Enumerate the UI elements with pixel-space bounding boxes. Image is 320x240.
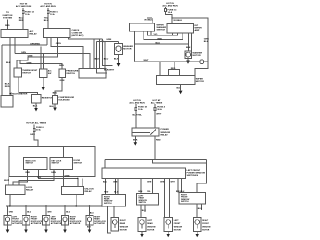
label BLK/RED — [5, 84, 10, 89]
svg-text:GRN: GRN — [65, 175, 70, 177]
node TO IGNITION SYSTEM — [3, 12, 13, 19]
wire box2 pin1 — [46, 38, 48, 46]
window motor M2 — [138, 218, 156, 232]
ground M3 — [167, 232, 170, 238]
wire trunk left drop — [104, 159, 106, 168]
svg-text:HOT AT ALL TIMES: HOT AT ALL TIMES — [26, 122, 46, 125]
svg-text:WASHER: WASHER — [193, 52, 203, 55]
window switch S1 — [102, 194, 126, 206]
wire relay pin to compressor branch — [9, 38, 11, 96]
svg-text:30 A: 30 A — [157, 108, 162, 111]
label UNLOCK RELAY — [85, 189, 95, 194]
wire H6 box2 right pins — [69, 38, 103, 40]
svg-text:WINDOW: WINDOW — [174, 226, 183, 228]
svg-text:WASHER: WASHER — [123, 45, 133, 48]
svg-text:GRN: GRN — [60, 80, 65, 82]
wire box9b pin pair — [113, 178, 118, 194]
washer motor box8 — [185, 51, 192, 58]
svg-text:YEL: YEL — [37, 177, 42, 179]
wire A pin1 to lock relay — [13, 170, 27, 186]
svg-text:REAR: REAR — [147, 222, 153, 225]
svg-text:GRN: GRN — [28, 56, 33, 58]
wire S1 left leg — [107, 206, 111, 233]
svg-text:SWITCH: SWITCH — [22, 72, 31, 74]
wiper motor box9 — [157, 76, 195, 85]
wire fuse to wiper switch — [166, 11, 173, 24]
wire box9b to S2 — [141, 178, 152, 193]
svg-text:SOLENOID: SOLENOID — [58, 99, 70, 101]
svg-text:WASHER: WASHER — [157, 26, 167, 29]
svg-text:LEFT: LEFT — [147, 220, 153, 222]
window motor M3 — [164, 218, 182, 232]
actuator U1 — [4, 206, 25, 225]
svg-text:MOTOR: MOTOR — [174, 230, 182, 232]
wire left branch — [97, 41, 108, 73]
wire fuse to lock switch — [34, 131, 38, 153]
svg-text:VIO: VIO — [154, 34, 158, 36]
wire trunk lower parallel branch — [152, 159, 206, 163]
svg-text:WINDOW: WINDOW — [147, 226, 156, 228]
wire B pin2 to unlock relay — [63, 170, 65, 187]
svg-text:ACTUATOR: ACTUATOR — [94, 222, 105, 225]
svg-text:SYSTEM: SYSTEM — [3, 17, 12, 19]
wire box6a pin to washer motor — [118, 41, 120, 43]
svg-text:HOT AT: HOT AT — [153, 99, 162, 102]
ground U3 — [44, 225, 48, 233]
label WASHER MOTOR — [193, 52, 203, 58]
wire box9b to S3 — [176, 178, 185, 193]
svg-text:SWITCH: SWITCH — [157, 30, 166, 32]
svg-text:SWITCH: SWITCH — [104, 203, 112, 205]
ground under box9 — [177, 85, 183, 95]
svg-text:GRN: GRN — [106, 39, 111, 41]
svg-text:BLU: BLU — [198, 208, 203, 210]
svg-text:BLK/WHT: BLK/WHT — [104, 69, 115, 71]
wire boxB feed — [63, 147, 65, 158]
svg-text:GRN: GRN — [138, 191, 143, 193]
label BLU — [19, 18, 24, 23]
ground U5 — [87, 225, 92, 233]
svg-text:GRN: GRN — [113, 181, 118, 183]
unlock relay boxR — [62, 187, 84, 195]
wire S2 to M2 — [141, 205, 146, 218]
svg-text:MOTOR: MOTOR — [147, 230, 155, 232]
svg-text:ACC AND RUN: ACC AND RUN — [162, 4, 178, 7]
ground U4 — [63, 225, 67, 233]
power window relay box — [132, 128, 159, 136]
wire box2 pin2 — [51, 38, 83, 69]
svg-text:BLU: BLU — [142, 210, 147, 212]
svg-text:GRN: GRN — [47, 212, 52, 214]
label WIPER MOTOR — [196, 78, 205, 83]
label TO TACHOMETER with arrow — [9, 92, 28, 95]
svg-text:BLK: BLK — [204, 41, 209, 43]
svg-text:FRONT: FRONT — [202, 223, 209, 225]
svg-text:SWITCH: SWITCH — [139, 202, 147, 204]
fuse F12 10A — [22, 10, 34, 16]
svg-text:MOTOR: MOTOR — [123, 49, 132, 51]
label PRESSURE SWITCH — [66, 71, 79, 76]
svg-text:ACC AND RUN: ACC AND RUN — [16, 5, 32, 8]
svg-text:SWITCH: SWITCH — [66, 73, 75, 75]
actuator U4 — [61, 206, 82, 225]
wire box2 pin4 GRN to thermo switch — [17, 38, 57, 69]
window motor M1 — [111, 218, 128, 232]
svg-text:RIGHT: RIGHT — [120, 220, 127, 222]
svg-text:10 A: 10 A — [168, 11, 173, 14]
label A/C SW — [48, 70, 52, 76]
label A/C RELAY — [30, 30, 38, 36]
svg-text:ACTUATOR: ACTUATOR — [12, 222, 23, 225]
a/c switch box2 — [44, 29, 71, 38]
ground U2 — [24, 225, 28, 233]
svg-text:SWITCH: SWITCH — [181, 201, 189, 203]
svg-text:10 A: 10 A — [50, 13, 55, 16]
svg-text:BLU: BLU — [53, 92, 58, 94]
radio suppressor box5a — [1, 96, 13, 108]
wire ignition to relay — [7, 20, 9, 30]
svg-text:ALL TIMES: ALL TIMES — [151, 102, 163, 105]
node HOT AT ALL TIMES — [151, 99, 163, 105]
fuse F4 30A — [154, 104, 165, 111]
wire trunk P — [105, 158, 206, 160]
washer motor box7 — [115, 44, 123, 55]
svg-text:TACHOMETER: TACHOMETER — [12, 93, 28, 96]
relay box3b — [40, 69, 48, 78]
svg-text:WHT: WHT — [4, 180, 10, 182]
wire feed1 — [22, 8, 24, 30]
junction dots on bus — [9, 205, 103, 206]
label LEFT FRONT POWER WINDOW SWITCHES — [187, 170, 206, 177]
svg-text:SWITCH: SWITCH — [74, 162, 83, 164]
svg-text:RELAY: RELAY — [30, 33, 38, 36]
svg-text:A/C: A/C — [30, 30, 34, 33]
svg-text:RIGHT: RIGHT — [202, 220, 209, 222]
wire unlock relay to bus — [75, 195, 77, 207]
wire long pair to M3 — [160, 178, 176, 217]
svg-text:RED: RED — [158, 38, 163, 40]
svg-text:ACTUATOR: ACTUATOR — [51, 222, 62, 225]
svg-text:WHT: WHT — [156, 113, 162, 115]
wire top right jumper — [172, 18, 208, 62]
wire GRN arrow to motor — [97, 39, 119, 42]
svg-text:10 A: 10 A — [138, 108, 143, 111]
wire arrow into switch — [36, 154, 39, 158]
svg-text:RED: RED — [26, 172, 31, 174]
window switch S2 — [137, 194, 159, 206]
label WASHER MOTOR — [123, 45, 133, 51]
svg-text:RED: RED — [156, 140, 161, 142]
fuse F6 30A — [33, 124, 44, 131]
pressure switch box3c — [59, 69, 66, 78]
svg-text:FRONT: FRONT — [174, 223, 181, 225]
window motor M4 — [194, 218, 211, 232]
svg-text:AMP: AMP — [195, 29, 200, 32]
wire nested H10 — [135, 31, 189, 44]
wire nested H8 — [147, 31, 177, 35]
svg-text:RESISTOR: RESISTOR — [42, 98, 54, 100]
svg-text:GRN: GRN — [30, 134, 35, 136]
ground under box5b — [33, 103, 38, 112]
svg-text:THERMOSTAT: THERMOSTAT — [22, 69, 38, 72]
wire left drop to box5a — [1, 45, 3, 96]
svg-text:A/C: A/C — [48, 70, 52, 73]
wire drop to park sw — [171, 62, 176, 70]
svg-text:RED: RED — [5, 25, 10, 27]
ground under relay — [133, 136, 138, 146]
wire trunk right path to S3 — [197, 159, 207, 192]
svg-text:RED: RED — [19, 20, 24, 22]
wire trunk drop — [134, 44, 136, 62]
junction dot — [77, 178, 78, 179]
svg-text:GRN: GRN — [160, 181, 165, 183]
svg-text:GRN: GRN — [56, 43, 61, 45]
svg-text:BLU: BLU — [104, 59, 109, 61]
label POWER WINDOW RELAY — [161, 129, 172, 136]
wire right side path — [195, 62, 208, 76]
svg-text:MOTOR: MOTOR — [193, 55, 202, 57]
actuator U5 — [86, 206, 107, 225]
wire box3b bottom arrow — [42, 78, 45, 91]
ground under box8 — [186, 58, 190, 64]
svg-text:GRN/RED: GRN/RED — [30, 43, 41, 45]
wire RED relay to trunk — [155, 136, 161, 159]
svg-text:VIO/BLK: VIO/BLK — [173, 20, 182, 22]
wire box9b pin1 — [103, 178, 108, 194]
label WIPER WASHER SWITCH — [195, 25, 203, 32]
ground U1 — [6, 225, 10, 233]
node HOT IN ACC AND RUN (left feed) — [16, 4, 32, 9]
svg-text:SWITCHES: SWITCHES — [187, 175, 199, 177]
wire S3 to M4 — [197, 204, 202, 218]
wire washer motor2 feeds — [186, 33, 192, 51]
svg-text:GRN: GRN — [147, 181, 152, 183]
wire H1 — [2, 44, 47, 46]
wire box4 drop right — [104, 41, 106, 68]
wire unlock relay second feed — [82, 178, 84, 186]
label LOCK RELAY — [26, 187, 34, 192]
lock relay boxL — [6, 185, 26, 195]
svg-text:BLU: BLU — [27, 212, 32, 214]
ground under box7 — [114, 55, 121, 67]
wire S1 to M1 top — [113, 206, 115, 217]
wire feed2 — [47, 8, 49, 29]
fuse F5 10A — [47, 10, 58, 16]
op-amp U0 a/c relay box — [1, 30, 28, 38]
wiper switch box6c — [167, 24, 194, 33]
svg-text:BLU: BLU — [156, 43, 161, 45]
svg-text:ACC AND RUN: ACC AND RUN — [40, 5, 56, 8]
ground M4 — [196, 232, 199, 238]
node HOT IN ACC AND RUN — [129, 100, 145, 105]
svg-text:GRN: GRN — [21, 52, 26, 54]
svg-text:BLU: BLU — [103, 181, 108, 183]
svg-text:GRN: GRN — [59, 65, 64, 67]
svg-text:(AUTO A/C): (AUTO A/C) — [72, 34, 84, 37]
svg-text:BLU: BLU — [114, 192, 119, 194]
svg-text:BLK: BLK — [33, 105, 38, 107]
diode box5b — [32, 95, 42, 104]
wire WHT left feed — [4, 177, 10, 186]
wire left drop — [102, 39, 112, 66]
wire nested H9 — [144, 31, 183, 39]
svg-text:ACTUATOR: ACTUATOR — [70, 222, 81, 225]
wire box2 pin3 main run — [15, 53, 90, 68]
svg-text:GRN: GRN — [51, 172, 56, 174]
wire fuse18 to relay — [135, 110, 137, 128]
svg-text:MOTOR: MOTOR — [202, 230, 210, 232]
svg-text:RELAY: RELAY — [85, 190, 93, 193]
svg-text:ACC AND RUN: ACC AND RUN — [129, 102, 145, 105]
label GRN BLK — [204, 39, 209, 44]
svg-text:BLU: BLU — [44, 20, 49, 22]
svg-text:WINDOW: WINDOW — [120, 226, 129, 228]
svg-text:BLK: BLK — [95, 59, 100, 61]
wiper switch section box6a — [130, 23, 155, 31]
dual pressure switch box4 — [79, 69, 106, 79]
label THERMO SWITCH — [22, 69, 38, 75]
svg-text:BLU: BLU — [90, 212, 95, 214]
svg-text:RED: RED — [104, 192, 109, 194]
wire A pin2 to unlock relay — [38, 170, 78, 187]
ground under box5c — [50, 104, 57, 111]
actuator U2 — [22, 206, 43, 225]
ground M2 — [140, 232, 143, 238]
wire relay pin2 down — [14, 38, 16, 54]
wire drop to wiper motor — [159, 62, 161, 76]
wire B pin1 crossover — [19, 170, 54, 186]
svg-text:WHT: WHT — [144, 60, 150, 62]
svg-text:LEFT: LEFT — [174, 220, 180, 222]
svg-text:BLK: BLK — [6, 62, 11, 64]
label COMPRESSOR SOLENOID — [58, 97, 74, 102]
svg-text:MOTOR: MOTOR — [120, 230, 128, 232]
compressor solenoid box5c — [53, 96, 58, 105]
wire box3c bottom — [55, 78, 62, 96]
wire box3b feeds — [40, 47, 42, 70]
wire H_c to pressure switch — [20, 60, 62, 69]
lock switch boxA — [24, 158, 48, 170]
svg-text:BLK: BLK — [186, 47, 191, 49]
door lock assembly box10 — [9, 147, 95, 177]
svg-text:BLU/YEL: BLU/YEL — [133, 114, 143, 116]
svg-text:MOTOR: MOTOR — [196, 81, 205, 83]
wire box6b feed VIO — [147, 18, 152, 23]
master switch box9b — [102, 168, 186, 178]
wire lock relay to bus — [9, 195, 11, 207]
wire thermo bottom — [19, 78, 38, 95]
label DOOR KEY SWITCH — [74, 160, 83, 165]
label CHECK CONN SWITCH — [72, 30, 84, 37]
washer switch box6b — [157, 24, 167, 31]
actuator U3 — [42, 206, 63, 225]
svg-text:10 A: 10 A — [25, 13, 30, 16]
key switch boxB — [50, 158, 73, 170]
svg-text:BLU: BLU — [66, 212, 71, 214]
thermostat switch box3a — [14, 68, 22, 77]
label U feeds — [9, 212, 71, 214]
svg-text:REAR: REAR — [120, 222, 126, 225]
svg-text:FUSE 4: FUSE 4 — [157, 105, 165, 108]
wire fuse4 to relay — [154, 110, 156, 128]
svg-text:GRN: GRN — [27, 62, 32, 64]
svg-text:RELAY: RELAY — [26, 189, 34, 192]
svg-text:RED: RED — [5, 86, 10, 88]
connector circle on trunk — [200, 60, 204, 64]
wire H6 drop — [93, 39, 95, 69]
svg-text:SWITCH: SWITCH — [26, 163, 34, 165]
svg-text:RELAY: RELAY — [161, 133, 169, 136]
label YEL — [44, 18, 49, 23]
svg-text:ACTUATOR: ACTUATOR — [31, 222, 42, 225]
wire trunk W — [135, 61, 208, 63]
fuse F13 10A — [165, 7, 177, 14]
svg-text:SWITCH: SWITCH — [52, 163, 60, 165]
node HOT IN ACC AND RUN (second feed) — [40, 4, 56, 9]
wire box6c pin stub — [171, 33, 173, 35]
node HOT IN ACC AND RUN — [162, 3, 178, 8]
wire ground bus — [6, 205, 102, 207]
fuse F18 10A — [135, 104, 148, 111]
window switch S3 — [179, 193, 206, 205]
park switch box7b — [169, 70, 180, 76]
svg-text:30 A: 30 A — [36, 129, 41, 132]
svg-text:WINDOW: WINDOW — [202, 226, 211, 228]
svg-text:GRN: GRN — [9, 212, 14, 214]
